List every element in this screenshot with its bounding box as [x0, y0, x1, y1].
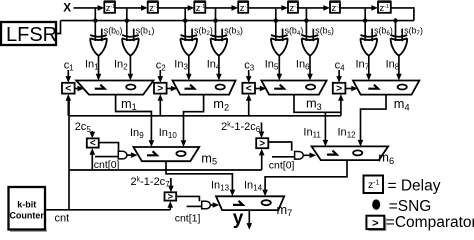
wire lfsr/tap bus	[61, 20, 414, 22]
svg-text:>: >	[336, 84, 342, 95]
mux m6 input-1 mark	[327, 151, 337, 155]
wire chain z1-z2	[115, 7, 143, 9]
svg-text:y: y	[233, 208, 244, 229]
wire xor1 output to In2	[129, 56, 131, 76]
svg-text:<: <	[65, 84, 71, 95]
wire comp7 out to and	[176, 196, 199, 201]
wire bus to xor5 left input	[305, 21, 307, 41]
delay z6 box	[330, 2, 340, 13]
svg-text:2k-1-2c7: 2k-1-2c7	[131, 176, 171, 189]
xor gate X2 s(b2)	[181, 35, 198, 37]
wire m4 out to In12	[361, 95, 387, 142]
wire xor3 output to In4	[218, 56, 220, 76]
and gate G7	[202, 201, 211, 209]
wire xor4 output to In5	[278, 56, 280, 76]
delay z5 box	[288, 2, 298, 13]
node tap junction dot 6	[363, 18, 367, 22]
wire cnt0 riser comp6	[261, 153, 263, 171]
node tap junction dot 0	[93, 18, 97, 22]
wire cnt[1] to G7	[187, 205, 202, 207]
wire cnt[0] to G5	[95, 156, 118, 158]
k-bit counter box	[9, 187, 46, 230]
wire cnt riser to c1	[67, 98, 69, 116]
svg-text:k-bit: k-bit	[17, 200, 36, 210]
node tap junction dot 1	[125, 18, 129, 22]
svg-text:X: X	[63, 1, 71, 15]
xor gate X5 s(b5)	[302, 35, 319, 37]
svg-text:s(b0): s(b0)	[104, 25, 123, 37]
comparator c3 box	[242, 83, 255, 94]
svg-text:cnt: cnt	[55, 213, 70, 225]
legend comparator shadow	[368, 218, 386, 231]
comparator 2c7 box	[165, 192, 177, 200]
svg-text:cnt[0]: cnt[0]	[269, 160, 295, 172]
xor gate X1 s(b1)	[122, 35, 139, 37]
wire m2 out to In10	[184, 95, 204, 142]
xor gate X4 s(b4)	[271, 35, 288, 37]
node tap junction dot 7	[393, 18, 397, 22]
svg-text:>: >	[168, 192, 174, 202]
comparator c4 box	[333, 83, 346, 94]
wire s(b2) input stub	[191, 29, 193, 42]
svg-text:s(b6): s(b6)	[374, 25, 393, 37]
mux m6 input-0 mark	[353, 150, 362, 155]
wire delay tap 3 down	[215, 8, 217, 21]
wire 2c7 down	[170, 178, 172, 188]
mux m4	[353, 81, 419, 95]
wire comp6 out to and	[268, 142, 291, 151]
delay z1 box	[104, 2, 115, 13]
mux m2 input-1 mark	[185, 85, 195, 89]
wire s(b5) input stub	[312, 29, 314, 42]
wire cnt0 riser comp5	[91, 152, 93, 170]
node tap junction dot 3	[213, 18, 217, 22]
wire bus to xor1 left input	[126, 21, 128, 41]
wire c4 output	[345, 88, 352, 90]
wire s(b4) input stub	[282, 29, 284, 42]
svg-text:s(b7): s(b7)	[404, 25, 423, 37]
wire cnt vertical V0	[68, 98, 70, 210]
delay z3 box	[194, 2, 205, 13]
wire c3 output	[255, 88, 261, 90]
delay z4 box	[238, 2, 248, 13]
svg-text:= Delay: = Delay	[388, 178, 441, 195]
wire LFSR to bus	[56, 21, 61, 34]
wire m6 out to In14	[265, 160, 347, 191]
wire G7 out	[210, 204, 214, 206]
wire y output	[248, 210, 250, 224]
svg-text:<: <	[90, 138, 96, 149]
wire delay tap 6 down	[364, 8, 366, 21]
wire X to first delay	[74, 7, 100, 9]
delay z2 box	[148, 2, 158, 13]
wire bus to xor2 left input	[184, 21, 186, 41]
svg-text:2k-1-2c6: 2k-1-2c6	[221, 121, 261, 134]
mux m7 input-1 mark	[233, 201, 243, 205]
wire xor0 output to In1	[98, 56, 100, 76]
wire delay tap 5 down	[305, 8, 307, 21]
wire bus to xor3 left input	[215, 21, 217, 41]
wire c2 down	[159, 70, 161, 78]
node tap junction dot 4	[274, 18, 278, 22]
wire G6 out	[303, 154, 311, 156]
mux m3	[261, 81, 326, 95]
mux m4 input-1 mark	[368, 85, 378, 89]
wire c1 down	[67, 70, 69, 78]
wire m1 out to In9	[116, 95, 152, 142]
xor gate X0 s(b0)	[90, 35, 107, 37]
scan artifact marks above delay boxes	[104, 0, 116, 2]
wire In11 drop	[324, 112, 326, 141]
node tap junction dot 5	[304, 18, 308, 22]
svg-text:>: >	[372, 218, 378, 230]
mux m2 input-0 mark (SNG ellipse)	[216, 85, 225, 90]
wire G5 out	[127, 154, 133, 156]
wire xor7 output to In8	[398, 56, 400, 76]
wire cnt riser to c4	[340, 98, 342, 116]
mux m3 input-1 mark	[274, 85, 284, 89]
wire delay tap 4 down	[275, 8, 277, 21]
svg-text:Counter: Counter	[9, 211, 44, 221]
wire xor2 output to In3	[188, 56, 190, 76]
wire bus to xor6 left input	[364, 21, 366, 41]
legend delay box	[364, 176, 384, 194]
wire chain z3-z4	[205, 7, 233, 9]
wire cnt from counter	[45, 209, 170, 211]
wire chain z2-z3	[158, 7, 189, 9]
svg-text:s(b4): s(b4)	[285, 25, 304, 37]
svg-text:=SNG: =SNG	[389, 198, 432, 215]
comparator 2c5 box	[87, 138, 99, 147]
node tap junction dot 2	[183, 18, 187, 22]
wire xor6 output to In7	[368, 56, 370, 76]
legend comparator box	[366, 216, 384, 229]
mux m3 input-0 mark (SNG ellipse)	[306, 85, 315, 90]
wire chain z5-z6	[298, 7, 325, 9]
wire X tap down	[94, 8, 96, 21]
mux m5	[133, 147, 199, 161]
wire chain z4-z5	[248, 7, 283, 9]
wire cnt[0] to G6	[272, 156, 295, 158]
wire bus to xor0 left input	[94, 21, 96, 41]
k-bit counter shadow	[10, 229, 47, 232]
wire delay tap 1 down	[126, 8, 128, 21]
wire s(b0) input stub	[101, 29, 103, 42]
mux m1 input-1 mark	[95, 85, 105, 89]
svg-text:<: <	[246, 84, 252, 95]
mux m2	[173, 81, 236, 95]
wire comp5 out to and	[99, 143, 119, 152]
xor gate X7 s(b7)	[391, 35, 408, 37]
mux m7	[216, 196, 284, 210]
xor gate X3 s(b3)	[211, 35, 228, 37]
wire s(b7) input stub	[401, 29, 403, 42]
delay z7 box	[378, 2, 391, 13]
wire chain z6-z7	[340, 7, 373, 9]
wire chain end corner	[391, 8, 414, 21]
wire cnt bus row2 H2	[69, 169, 262, 171]
wire s(b6) input stub	[371, 29, 373, 42]
svg-text:>: >	[157, 84, 163, 95]
wire delay tap 2 down	[184, 8, 186, 21]
mux m7 input-0 mark	[262, 200, 271, 205]
svg-text:s(b2): s(b2)	[194, 25, 213, 37]
mux m5 input-0 mark	[176, 151, 185, 156]
svg-text:s(b5): s(b5)	[315, 25, 334, 37]
comparator c1 box	[62, 83, 75, 94]
wire c2 output	[167, 88, 173, 90]
wire 2c6 down	[261, 123, 263, 134]
svg-text:s(b3): s(b3)	[224, 25, 243, 37]
comparator c2 box	[154, 83, 167, 94]
LFSR box	[1, 22, 56, 45]
svg-text:s(b1): s(b1)	[136, 25, 155, 37]
wire cnt riser comp7	[169, 205, 171, 210]
mux m4 input-0 mark (SNG ellipse)	[398, 85, 407, 90]
and gate G6	[295, 152, 304, 160]
wire bus to xor4 left input	[275, 21, 277, 41]
wire s(b1) input stub	[133, 29, 135, 42]
legend SNG symbol	[372, 199, 380, 209]
svg-text:=Comparator: =Comparator	[386, 214, 474, 231]
svg-text:LFSR: LFSR	[6, 24, 57, 46]
svg-text:>: >	[259, 138, 265, 149]
wire m5 out to In13	[166, 161, 232, 191]
wire xor5 output to In6	[309, 56, 311, 76]
wire bus to xor7 left input	[395, 21, 397, 41]
mux m5 input-1 mark	[147, 151, 157, 155]
wire m3 out jog	[294, 95, 341, 113]
and gate G5	[118, 151, 127, 159]
mux m6	[312, 146, 389, 160]
wire cnt riser to c3	[248, 98, 250, 116]
xor gate X6 s(b6)	[361, 35, 378, 37]
mux m1 input-0 mark (SNG ellipse)	[126, 85, 135, 90]
comparator 2c6 box	[256, 138, 268, 148]
wire c1 output	[75, 88, 79, 90]
mux m1	[76, 81, 153, 95]
wire s(b3) input stub	[221, 29, 223, 42]
wire 2c5 down	[91, 131, 93, 134]
wire c4 down	[338, 70, 340, 78]
wire cnt riser to c2	[159, 98, 161, 116]
svg-text:cnt[0]: cnt[0]	[94, 159, 120, 171]
wire cnt bus row1 H1	[69, 115, 341, 117]
wire c3 down	[248, 70, 250, 78]
svg-text:cnt[1]: cnt[1]	[175, 212, 201, 224]
